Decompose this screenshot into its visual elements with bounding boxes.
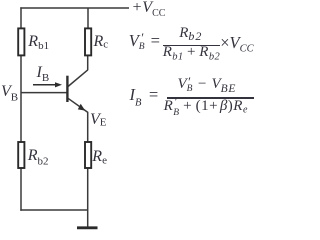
label Rb2	[28, 148, 49, 168]
eq1 numerator Rb2	[179, 26, 202, 42]
circuit graphics	[0, 0, 256, 232]
wire: collector branch top (Vcc to Rc)	[87, 8, 89, 29]
node +VCC label	[132, 0, 166, 19]
ground	[77, 226, 98, 229]
resistor Rc body	[85, 28, 91, 55]
wire: left rail lower segment	[20, 169, 22, 211]
eq2 lhs IB=	[130, 87, 160, 109]
wire: left rail middle segment (between Rb1 and Rb2)	[20, 56, 22, 142]
wire: bottom rail	[20, 209, 88, 211]
eq1 rhs xVCC	[220, 35, 253, 55]
node VE label	[90, 112, 107, 129]
wire: left rail upper segment	[20, 7, 22, 29]
wire: collector diagonal	[68, 70, 88, 87]
wire: top rail from left rail to +Vcc	[20, 7, 129, 9]
eq2 denominator R'B+(1+beta)Re	[164, 99, 248, 116]
wire: base wire from left rail to transistor	[21, 92, 67, 94]
resistor Rb2 body	[18, 142, 24, 168]
eq2 numerator V'B-VBE	[178, 77, 237, 96]
eq2 fraction bar	[167, 97, 254, 98]
label IB	[37, 65, 50, 84]
resistor Re body	[85, 142, 91, 168]
eq1 denominator Rb1+Rb2	[163, 45, 220, 63]
wire: emitter vertical to Re	[87, 112, 89, 142]
wire: emitter vertical below Re to ground	[87, 169, 89, 228]
wire: collector vertical below Rc	[87, 56, 89, 70]
transistor Q1 emitter arrowhead	[78, 104, 85, 111]
label Rc	[94, 34, 109, 51]
label Rb1	[28, 34, 49, 52]
resistor Rb1 body	[18, 28, 24, 55]
eq1 fraction bar	[163, 45, 220, 47]
current arrow IB	[33, 84, 57, 86]
eq1 lhs V'B=	[129, 33, 161, 50]
label Re	[92, 149, 107, 167]
node VB label	[1, 84, 18, 104]
transistor Q1 base bar	[66, 76, 68, 102]
wire: emitter diagonal	[68, 98, 88, 112]
